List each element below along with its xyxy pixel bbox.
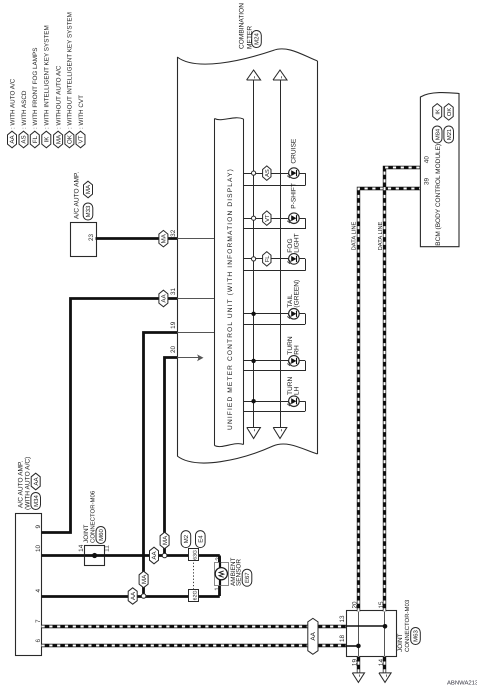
connector ref M60 oval <box>96 527 106 544</box>
svg-text:18: 18 <box>339 634 346 642</box>
option junction (open circle) on bus 1 for P-SHIFT <box>252 216 256 220</box>
M63 internal wire from pin 18 to junction <box>346 645 358 647</box>
indicator lamp circuit FOG LIGHT: anode line <box>244 259 306 271</box>
lamp label TURN RH <box>287 336 301 355</box>
svg-text:VT: VT <box>265 214 271 222</box>
M60 internal junction dot <box>92 553 97 558</box>
joint connector M60 labels <box>83 490 96 543</box>
lamp label FOG LIGHT <box>287 233 301 252</box>
wire junction to meter pin 19 <box>144 333 178 594</box>
condition MA hexagon for M33 <box>84 181 93 198</box>
svg-text:31: 31 <box>170 287 177 295</box>
svg-text:AS: AS <box>21 135 28 143</box>
wire junction to meter pin 20 <box>165 358 178 554</box>
legend item VT: WITH CVT <box>76 95 85 148</box>
svg-text:A/C AUTO AMP.: A/C AUTO AMP. <box>73 171 80 219</box>
svg-text:19: 19 <box>170 321 177 329</box>
svg-text:40: 40 <box>424 156 431 164</box>
connector ref M84 oval (with I-key) <box>432 126 442 143</box>
svg-text:CONNECTOR-M03: CONNECTOR-M03 <box>404 599 411 652</box>
svg-text:: WITH INTELLIGENT KEY SYSTEM: : WITH INTELLIGENT KEY SYSTEM <box>44 25 51 129</box>
svg-text:: WITH FRONT FOG LAMPS: : WITH FRONT FOG LAMPS <box>32 48 39 129</box>
svg-text:FL: FL <box>265 255 271 263</box>
option junction (open circle) on bus 1 for CRUISE <box>252 171 256 175</box>
svg-text:OK: OK <box>67 134 74 144</box>
svg-text:2: 2 <box>215 557 222 561</box>
connector ref E4 oval <box>196 531 206 548</box>
svg-text:IK: IK <box>435 109 441 115</box>
meter internal stub pin 20 with continuation arrow <box>177 354 203 361</box>
svg-text:MA: MA <box>161 233 168 243</box>
legend item AS: WITH ASCD <box>19 90 28 148</box>
svg-text:SENSOR: SENSOR <box>236 559 243 586</box>
junction of pin10 net and pin20 branch (open circle) <box>162 553 167 558</box>
connector ref M34 oval <box>31 493 41 510</box>
condition MA hexagon on pin20 branch <box>160 532 169 549</box>
svg-text:14: 14 <box>78 544 85 552</box>
svg-text:13: 13 <box>339 615 346 623</box>
wire 62G to ambient sensor pin 1 <box>218 585 221 596</box>
svg-text:LIGHT: LIGHT <box>294 233 301 252</box>
condition FL hexagon for FOG LIGHT <box>263 252 271 267</box>
svg-text:ABNWA213: ABNWA213 <box>447 680 477 687</box>
A/C auto amp M33 box <box>71 171 97 256</box>
svg-text:9: 9 <box>35 525 42 529</box>
meter internal stub pin 19 to unified unit <box>177 332 214 334</box>
LED lamp TURN LH <box>287 396 299 407</box>
svg-text:M84: M84 <box>434 128 441 140</box>
svg-text:20: 20 <box>170 345 177 353</box>
svg-text:(GREEN): (GREEN) <box>294 280 301 308</box>
condition MA hexagon on pin32 wire <box>159 230 168 247</box>
LED lamp FOG LIGHT <box>287 254 299 265</box>
M63 junction dot lower-left <box>356 644 361 649</box>
junction dot on bus 1 for TURN LH <box>251 399 255 403</box>
wire junction to 63G connector <box>167 554 220 557</box>
condition AA hexagon on pin31 wire <box>159 290 168 307</box>
LED lamp TURN RH <box>287 356 299 367</box>
junction dot on bus 1 for TAIL (GREEN) <box>251 312 255 316</box>
junction dot on bus 1 for TURN RH <box>251 359 255 363</box>
svg-text:COMBINATION: COMBINATION <box>239 3 246 49</box>
svg-text:AA: AA <box>310 631 317 640</box>
svg-text:: WITH AUTO A/C: : WITH AUTO A/C <box>9 78 16 129</box>
svg-text:6: 6 <box>35 639 42 643</box>
indicator lamp circuit TURN RH: anode line <box>244 361 306 372</box>
data line continuation left (upper) with triangle <box>357 657 360 673</box>
unified meter control unit box <box>215 118 244 447</box>
LED lamp TAIL (GREEN) <box>287 308 299 319</box>
wire M54 pin 9 to meter pin 31 <box>42 299 178 533</box>
svg-text:P-SHIFT: P-SHIFT <box>291 183 298 209</box>
joint connector M63 box <box>347 611 397 657</box>
legend item FL: WITH FRONT FOG LAMPS <box>30 48 39 148</box>
svg-text:E4: E4 <box>197 535 204 543</box>
junction of pin4 net and pin19 branch (open circle) <box>141 594 146 599</box>
svg-text:AS: AS <box>264 169 271 177</box>
connector boundary dotted line 62G-63G <box>193 561 195 590</box>
LED lamp CRUISE <box>287 168 299 179</box>
option junction (open circle) on bus 1 for FOG LIGHT <box>252 257 256 261</box>
svg-text:RH: RH <box>294 345 301 355</box>
condition AA hexagon on pin4 wire <box>128 588 137 604</box>
svg-text:M2: M2 <box>183 534 190 543</box>
svg-text:: WITH ASCD: : WITH ASCD <box>21 90 28 129</box>
svg-text:AA: AA <box>9 135 16 144</box>
joint connector M63 labels <box>397 599 411 652</box>
wire M33 pin 23 to combination meter pin 32 <box>96 237 178 240</box>
svg-text:11: 11 <box>104 545 111 552</box>
svg-text:JOINT: JOINT <box>83 524 90 543</box>
wire M54 pin 4 down to junction and 62G <box>42 595 220 598</box>
wire 63G to ambient sensor pin 2 <box>218 556 221 563</box>
indicator lamp circuit P-SHIFT: anode line <box>244 218 306 229</box>
lamp label CRUISE <box>291 138 298 164</box>
data line continuation left (lower) with triangle <box>383 657 386 673</box>
data line M63 pin 15 to BCM pin 40 <box>385 168 421 612</box>
legend item MA: WITHOUT AUTO A/C <box>54 65 63 148</box>
condition MA hexagon on pin19 branch <box>139 571 148 588</box>
svg-text:OK: OK <box>446 108 453 117</box>
svg-text:63G: 63G <box>192 550 198 560</box>
svg-text:MA: MA <box>85 184 92 194</box>
legend item OK: WITHOUT INTELLIGENT KEY SYSTEM <box>65 12 74 148</box>
harness through connector 63G box <box>189 549 199 561</box>
connector ref E67 oval <box>242 569 252 586</box>
meter internal stub pin 32 to unified unit <box>177 238 214 240</box>
svg-text:E67: E67 <box>244 572 251 583</box>
svg-text:23: 23 <box>88 233 95 241</box>
svg-text:M63: M63 <box>413 630 420 642</box>
condition VT hexagon for P-SHIFT <box>263 211 271 226</box>
legend item IK: WITH INTELLIGENT KEY SYSTEM <box>42 25 51 147</box>
DATA LINE label upper <box>347 222 356 252</box>
combination meter labels <box>239 3 254 49</box>
svg-text:LH: LH <box>294 386 301 395</box>
svg-text:CRUISE: CRUISE <box>291 138 298 164</box>
indicator lamp circuit TAIL (GREEN): anode line <box>244 314 306 325</box>
condition AA hexagon for M54 <box>31 473 40 490</box>
DATA LINE label lower <box>374 222 383 252</box>
svg-text:JOINT: JOINT <box>397 633 404 652</box>
joint connector M60 box <box>85 546 105 566</box>
svg-text:(WITH AUTO A/C): (WITH AUTO A/C) <box>24 457 31 510</box>
connector ref M33 oval <box>83 203 93 220</box>
svg-text:IK: IK <box>44 136 51 143</box>
ambient sensor labels <box>230 557 243 586</box>
connector ref M24 oval <box>252 31 262 48</box>
svg-text:7: 7 <box>35 619 42 623</box>
data line M63 pin 20 to BCM pin 39 <box>359 189 421 612</box>
svg-text:62G: 62G <box>192 590 198 600</box>
data line wire M54 pin 6 to joint connector M63 pin 18 <box>42 644 347 647</box>
condition AS hexagon for CRUISE <box>263 166 271 181</box>
indicator lamp circuit CRUISE: anode line <box>244 173 306 185</box>
connector ref M2 oval <box>181 531 191 548</box>
svg-text:MA: MA <box>141 574 148 584</box>
condition AA hexagon on pin10 wire <box>150 547 159 564</box>
indicator lamp circuit TURN LH: anode line <box>244 401 306 411</box>
lamp label TAIL (GREEN) <box>287 280 301 308</box>
svg-text:39: 39 <box>424 177 431 185</box>
BCM (body control module) box <box>420 93 459 247</box>
combination meter box M24 <box>177 49 317 463</box>
condition IK hexagon <box>433 104 442 121</box>
svg-text:M60: M60 <box>98 529 105 541</box>
svg-text:FL: FL <box>32 135 39 143</box>
svg-text:M34: M34 <box>33 495 40 507</box>
condition AA hexagon spanning both data lines <box>308 618 318 654</box>
svg-text:M21: M21 <box>446 129 453 140</box>
meter internal stub pin 31 to unified unit <box>177 298 214 300</box>
svg-text:BCM (BODY CONTROL MODULE): BCM (BODY CONTROL MODULE) <box>435 144 442 246</box>
ambient sensor box E67 <box>215 562 229 585</box>
harness through connector 62G box <box>189 590 199 602</box>
svg-text:M33: M33 <box>85 205 92 217</box>
svg-text:: WITH CVT: : WITH CVT <box>78 95 85 129</box>
LED lamp P-SHIFT <box>287 213 299 224</box>
svg-text:MA: MA <box>55 134 62 144</box>
svg-text:: WITHOUT INTELLIGENT KEY SYST: : WITHOUT INTELLIGENT KEY SYSTEM <box>67 12 74 129</box>
svg-text:MA: MA <box>162 535 169 545</box>
M63 internal through line (upper data line) <box>358 611 360 657</box>
svg-text:VT: VT <box>78 135 85 143</box>
svg-text:M24: M24 <box>254 33 261 45</box>
meter internal bus line 2 with continuation triangles <box>273 70 287 439</box>
M63 junction dot right <box>383 624 388 629</box>
connector ref M21 oval (without I-key) <box>444 126 454 143</box>
svg-text:AA: AA <box>130 591 137 600</box>
wire M54 pin 10 down through joint connector M60 <box>42 554 165 557</box>
A/C auto amp (with auto A/C) M54 box <box>16 457 42 656</box>
svg-text:10: 10 <box>35 544 42 552</box>
data line wire M54 pin 7 to joint connector M63 pin 13 <box>42 625 347 628</box>
svg-text:: WITHOUT AUTO A/C: : WITHOUT AUTO A/C <box>55 65 62 129</box>
svg-text:DATA LINE: DATA LINE <box>378 221 384 250</box>
svg-text:32: 32 <box>170 229 177 237</box>
svg-text:1: 1 <box>214 587 221 591</box>
connector ref M63 oval <box>411 628 421 645</box>
svg-text:4: 4 <box>35 589 42 593</box>
svg-text:AA: AA <box>151 551 158 560</box>
legend item AA: WITH AUTO A/C <box>8 78 17 148</box>
svg-text:DATA LINE: DATA LINE <box>352 221 358 250</box>
lamp label TURN LH <box>287 376 301 395</box>
svg-text:UNIFIED METER CONTROL UNIT (WI: UNIFIED METER CONTROL UNIT (WITH INFORMA… <box>227 168 234 430</box>
meter internal bus line 1 with continuation triangles <box>247 70 261 439</box>
M63 internal through line (lower data line) <box>384 611 386 657</box>
condition OK hexagon <box>444 104 453 121</box>
svg-text:AA: AA <box>161 294 168 303</box>
M63 internal wire from pin 13 to junction <box>346 625 385 627</box>
svg-text:AA: AA <box>33 477 40 486</box>
lamp label P-SHIFT <box>291 183 298 209</box>
